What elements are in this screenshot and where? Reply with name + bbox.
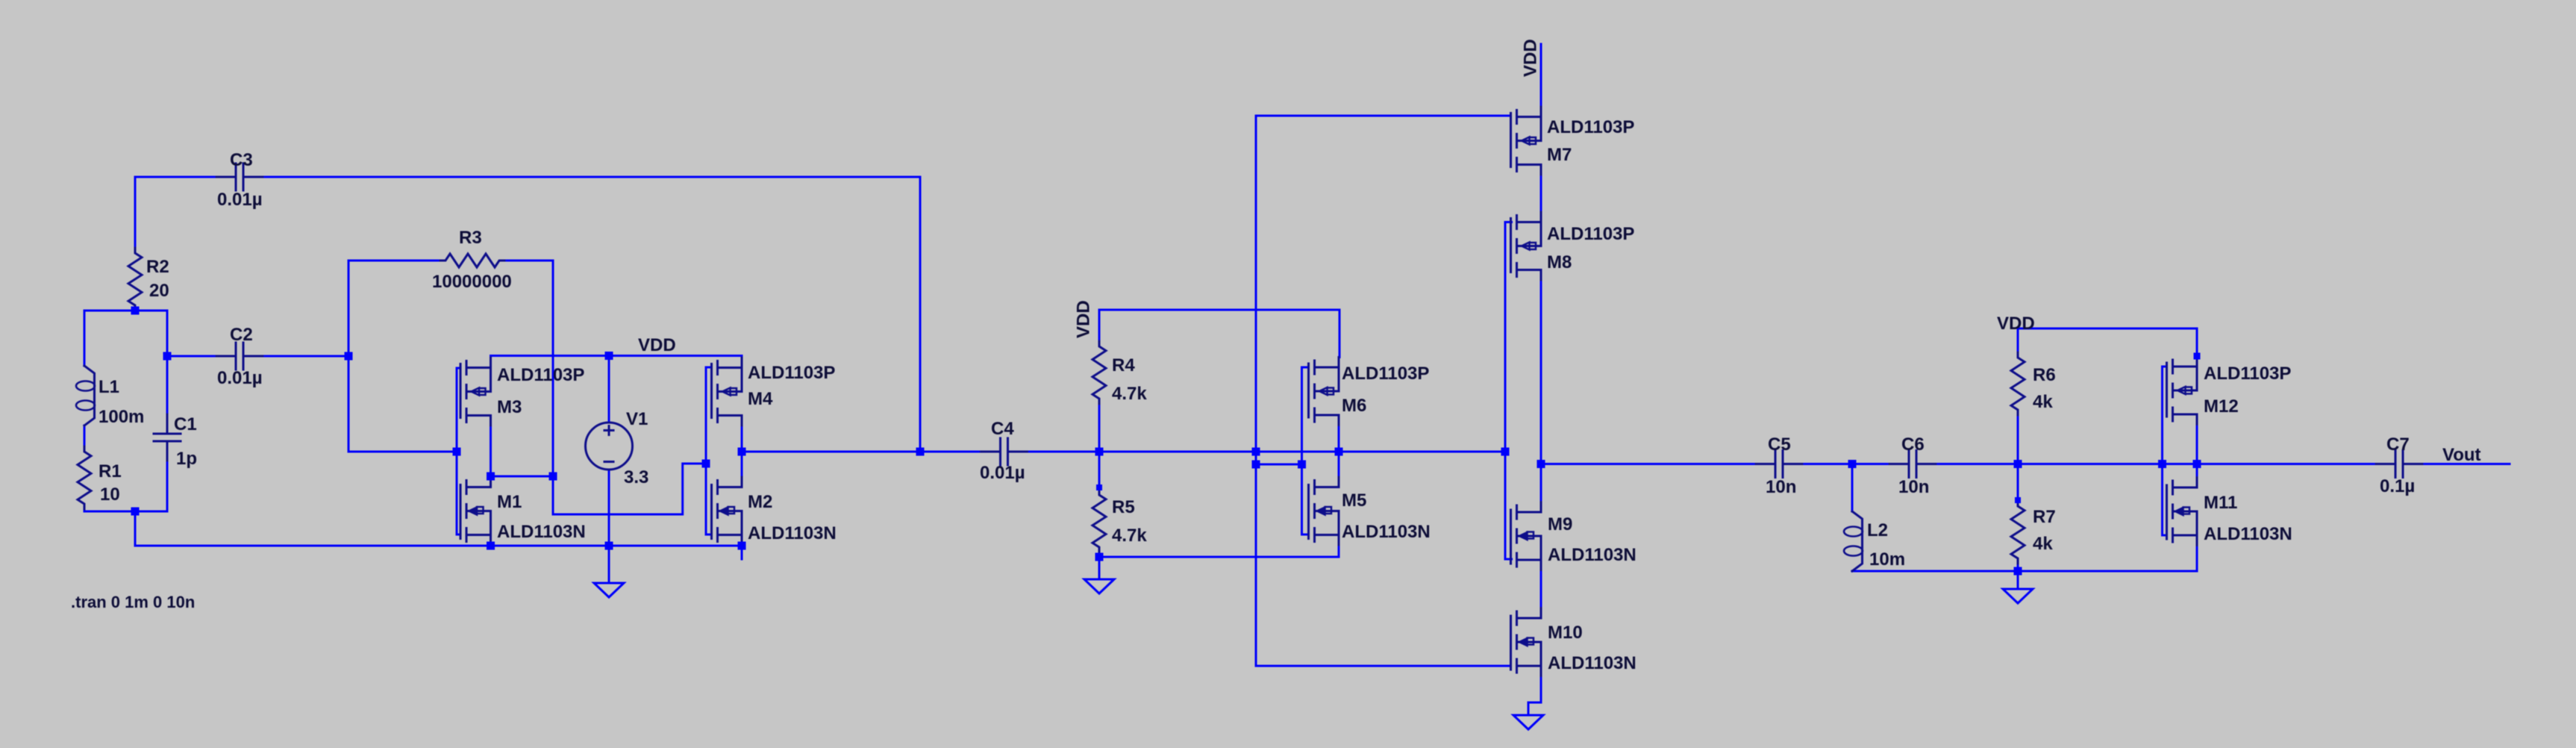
svg-text:M1: M1 <box>497 492 522 512</box>
svg-text:C2: C2 <box>230 325 253 345</box>
svg-text:4.7k: 4.7k <box>1112 384 1147 404</box>
svg-text:ALD1103P: ALD1103P <box>2204 364 2291 384</box>
svg-text:R4: R4 <box>1112 355 1135 375</box>
svg-text:10: 10 <box>100 484 120 505</box>
svg-text:ALD1103N: ALD1103N <box>1342 522 1431 542</box>
svg-text:R3: R3 <box>459 228 482 248</box>
svg-text:0.1µ: 0.1µ <box>2380 476 2415 496</box>
svg-text:VDD: VDD <box>1521 39 1541 77</box>
svg-text:M10: M10 <box>1548 623 1583 643</box>
svg-text:M9: M9 <box>1548 514 1572 534</box>
svg-text:0.01µ: 0.01µ <box>217 190 263 210</box>
svg-text:M12: M12 <box>2204 396 2239 417</box>
svg-text:VDD: VDD <box>1997 314 2035 334</box>
svg-text:R5: R5 <box>1112 497 1135 517</box>
svg-text:C5: C5 <box>1768 434 1791 455</box>
svg-text:V1: V1 <box>626 409 648 429</box>
svg-text:VDD: VDD <box>1074 300 1094 338</box>
svg-text:1p: 1p <box>176 449 197 469</box>
svg-text:.tran 0 1m 0 10n: .tran 0 1m 0 10n <box>71 593 195 611</box>
svg-text:M8: M8 <box>1547 252 1572 272</box>
svg-text:ALD1103N: ALD1103N <box>748 523 837 543</box>
svg-text:4.7k: 4.7k <box>1112 526 1147 546</box>
svg-text:ALD1103P: ALD1103P <box>1547 224 1634 244</box>
svg-text:C3: C3 <box>230 150 253 170</box>
svg-text:L2: L2 <box>1867 520 1888 540</box>
svg-text:M6: M6 <box>1342 396 1366 416</box>
svg-text:R1: R1 <box>99 461 122 481</box>
svg-text:0.01µ: 0.01µ <box>980 463 1025 483</box>
svg-text:ALD1103N: ALD1103N <box>497 522 586 542</box>
svg-text:C4: C4 <box>991 419 1014 439</box>
svg-text:L1: L1 <box>99 377 119 397</box>
svg-text:100m: 100m <box>99 407 144 427</box>
svg-text:3.3: 3.3 <box>624 467 648 487</box>
svg-text:ALD1103N: ALD1103N <box>1548 545 1636 565</box>
svg-text:Vout: Vout <box>2442 445 2481 465</box>
svg-text:10n: 10n <box>1766 477 1796 497</box>
svg-text:ALD1103N: ALD1103N <box>1548 653 1636 673</box>
svg-text:C7: C7 <box>2386 434 2410 455</box>
svg-text:C6: C6 <box>1901 434 1925 455</box>
svg-text:0.01µ: 0.01µ <box>217 368 263 388</box>
svg-text:R6: R6 <box>2033 365 2056 385</box>
svg-text:10m: 10m <box>1869 549 1905 570</box>
svg-text:ALD1103P: ALD1103P <box>1342 364 1429 384</box>
svg-text:10n: 10n <box>1898 477 1929 497</box>
svg-text:M7: M7 <box>1547 145 1572 165</box>
svg-text:R7: R7 <box>2033 507 2056 527</box>
svg-text:ALD1103P: ALD1103P <box>748 363 835 383</box>
svg-text:M5: M5 <box>1342 490 1366 511</box>
svg-text:4k: 4k <box>2033 392 2053 412</box>
svg-text:C1: C1 <box>174 414 197 434</box>
svg-text:R2: R2 <box>146 257 169 277</box>
svg-text:M2: M2 <box>748 492 772 512</box>
svg-text:20: 20 <box>149 281 169 301</box>
svg-text:ALD1103N: ALD1103N <box>2204 524 2292 544</box>
svg-text:ALD1103P: ALD1103P <box>1547 117 1634 137</box>
svg-text:M3: M3 <box>497 397 522 417</box>
svg-text:M4: M4 <box>748 389 773 409</box>
svg-text:ALD1103P: ALD1103P <box>497 365 584 385</box>
svg-text:10000000: 10000000 <box>432 272 512 292</box>
svg-text:M11: M11 <box>2204 493 2237 513</box>
svg-text:4k: 4k <box>2033 534 2053 554</box>
svg-text:VDD: VDD <box>638 335 676 355</box>
